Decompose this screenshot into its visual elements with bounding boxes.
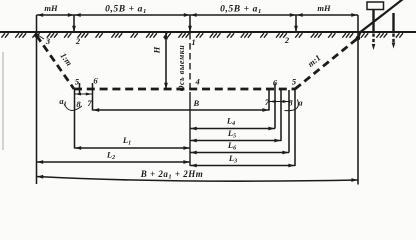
arrowheads on top dimension chain: [37, 13, 43, 17]
extension point 7L x=92.5: [92, 83, 94, 111]
drop arrow point 2 right: [295, 15, 297, 31]
svg-text:В + 2а1 + 2Нm: В + 2а1 + 2Нm: [140, 169, 204, 181]
svg-text:0,5В + а1: 0,5В + а1: [105, 5, 147, 16]
svg-text:2: 2: [75, 36, 81, 46]
extension point 7R2 x=281: [280, 90, 282, 141]
node: left slope top dot: [34, 33, 39, 38]
top dimension chain line: [37, 14, 359, 16]
extension point 8R x=289: [288, 90, 290, 153]
extension line right slope top x=358 (full height): [357, 15, 359, 185]
stake 1 buried dashed part: [372, 34, 374, 46]
extension below corner 5R x=295: [294, 89, 296, 166]
scan artifact: faint left page edge: [2, 52, 4, 150]
node: right slope dot at extension: [356, 36, 361, 41]
centre axis solid lower part: [189, 92, 191, 166]
stake 2 above ground: [392, 13, 394, 33]
stake 2 buried dashed part: [392, 34, 394, 44]
centre axis dashed (Os vyemki): [189, 33, 191, 92]
dimension L6 line: [190, 152, 289, 154]
point label 3 with leader: [39, 36, 45, 40]
extension point 7R x=269: [268, 90, 270, 111]
dimension L4 line: [190, 128, 275, 130]
drop arrow point 1 on axis: [189, 15, 191, 31]
leader arc under a1: [64, 104, 82, 111]
a1 small dimension arrows: [75, 93, 93, 95]
svg-text:2: 2: [284, 35, 290, 45]
leader arc under a right: [285, 100, 299, 111]
svg-text:3: 3: [45, 36, 51, 46]
dimension L2 line: [37, 161, 191, 163]
dimension B+2a1+2Hm line: [37, 177, 359, 182]
a small dimension arrows right: [270, 101, 289, 103]
stake 2 tip: [392, 43, 396, 49]
depth dimension H line: [165, 33, 167, 89]
sight board on stake: [367, 2, 384, 10]
ground surface line: [0, 31, 416, 33]
dimension L5 line: [190, 140, 281, 142]
right slope solid extension above ground to sight rail: [358, 0, 403, 38]
dimension L3 line: [190, 165, 295, 167]
right slope dashed line: [295, 38, 358, 89]
dimension L1 line: [75, 147, 191, 149]
svg-text:4: 4: [195, 77, 200, 87]
dimension B line: [93, 109, 270, 111]
svg-text:mH: mH: [317, 3, 331, 13]
svg-text:Ось выемки: Ось выемки: [177, 45, 186, 91]
svg-text:1: 1: [191, 37, 195, 47]
trench bottom dashed line: [74, 88, 295, 91]
svg-text:mH: mH: [44, 3, 58, 13]
extension line left slope top x=36 (full height): [36, 15, 38, 184]
stake 1 tip: [372, 44, 376, 50]
point 5 left tick: [79, 83, 81, 95]
extension below corner 8L x=74.5: [74, 89, 76, 149]
svg-text:H: H: [152, 46, 162, 54]
ground hatching strokes: [1, 33, 403, 38]
drop arrow point 2 left: [73, 15, 75, 31]
svg-text:В: В: [193, 98, 200, 108]
stake 1 above ground: [372, 10, 374, 33]
extension point 6R tick x=275: [274, 84, 276, 129]
svg-text:0,5В + а1: 0,5В + а1: [220, 5, 262, 16]
left slope dashed line: [37, 36, 75, 90]
